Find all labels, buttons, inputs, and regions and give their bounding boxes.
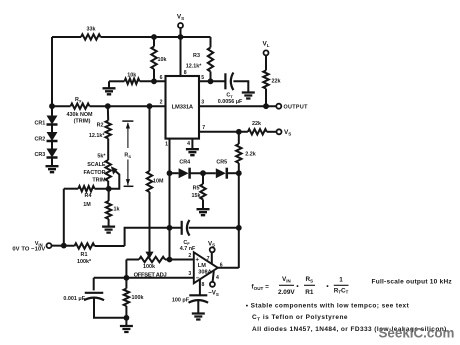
terminal VIN	[47, 243, 52, 248]
label CR2	[35, 137, 46, 143]
wire to opamp plus	[170, 259, 194, 261]
label 33k	[87, 27, 96, 33]
svg-text:Full-scale output 10 kHz: Full-scale output 10 kHz	[372, 278, 453, 285]
label CF	[180, 240, 196, 252]
svg-text:VL​: VL​	[262, 41, 269, 48]
svg-text:0V TO −10V: 0V TO −10V	[12, 247, 45, 253]
svg-text:R3: R3	[193, 53, 200, 59]
pin 6 label	[160, 75, 163, 81]
label 22k VL	[272, 79, 281, 85]
svg-text:10M: 10M	[153, 179, 164, 185]
ground R5	[197, 209, 210, 215]
opamp pin3 label	[188, 271, 191, 277]
formula fout	[252, 284, 270, 292]
opamp pin7	[210, 247, 215, 263]
capacitor CF 4.7nF	[182, 220, 190, 236]
svg-text:22k: 22k	[272, 79, 281, 85]
svg-text:1k: 1k	[114, 207, 120, 213]
svg-text:LM331A: LM331A	[172, 104, 194, 110]
wire opamp output up	[238, 228, 240, 268]
svg-text:10k: 10k	[158, 57, 167, 63]
label VS top	[177, 14, 184, 21]
junction R4 pot 1k	[106, 186, 112, 192]
svg-text:100k: 100k	[143, 264, 155, 270]
op-amp U2 LM308A	[194, 252, 218, 283]
resistor R3 12.1k	[208, 37, 213, 81]
svg-text:6: 6	[160, 75, 163, 81]
opamp pin8	[199, 280, 201, 296]
svg-text:FACTOR: FACTOR	[83, 170, 105, 176]
label R5	[192, 185, 201, 199]
label 0.001uF	[63, 296, 85, 302]
label OUTPUT	[284, 105, 309, 111]
wire pin3 row	[94, 277, 194, 279]
svg-text:1: 1	[165, 142, 168, 148]
svg-text:6: 6	[220, 262, 223, 268]
svg-text:5k*: 5k*	[97, 153, 106, 159]
note diodes	[252, 326, 447, 333]
junction opamp plus	[167, 257, 173, 263]
terminal VS right	[277, 129, 282, 134]
resistor R5 15k	[200, 173, 205, 209]
svg-text:12.1k*: 12.1k*	[186, 64, 202, 70]
diode CR3	[47, 141, 58, 158]
opamp minus sign	[196, 275, 200, 282]
svg-text:CR3: CR3	[35, 152, 46, 158]
label CT	[218, 93, 243, 106]
label 100k vertical	[132, 295, 144, 301]
label R4	[83, 193, 91, 208]
wire pin 1 vertical	[169, 139, 171, 260]
label LM308A	[198, 263, 212, 275]
svg-text:RS​: RS​	[124, 153, 131, 159]
resistor 10k vertical	[151, 37, 156, 81]
svg-text:• Stable components with low t: • Stable components with low tempco; see…	[246, 303, 410, 310]
junction R3 pin5	[208, 78, 214, 84]
IC U1 LM331A	[166, 76, 200, 139]
svg-text:OUTPUT: OUTPUT	[284, 105, 309, 111]
wire 2.2k to summing node	[238, 173, 240, 228]
label RS	[124, 153, 131, 159]
wire CR5 to 2.2k	[227, 172, 239, 174]
junction VIN R4	[61, 243, 67, 249]
formula frac RS	[304, 276, 315, 296]
wire CR4 anode	[170, 172, 179, 174]
wiper scale factor	[109, 166, 120, 189]
svg-text:TRIM: TRIM	[92, 177, 106, 183]
resistor R2 12.1k	[106, 106, 111, 160]
svg-text:R4: R4	[85, 193, 92, 199]
junction RX left	[49, 103, 55, 109]
wire offset pot left down	[125, 260, 127, 278]
label 10M	[153, 179, 164, 185]
diode CR1	[47, 106, 58, 124]
ground 1k	[102, 227, 115, 233]
ground 100pF	[192, 314, 205, 320]
svg-text:2: 2	[188, 253, 191, 259]
svg-text:R5: R5	[193, 185, 200, 191]
opamp pin6 label	[220, 262, 223, 268]
svg-text:5: 5	[201, 75, 204, 81]
pin 5 label	[201, 75, 204, 81]
label 22k VS	[252, 121, 261, 127]
label minus VS opamp	[208, 290, 219, 297]
label 430k NOM	[66, 112, 93, 125]
svg-text:100 pF: 100 pF	[172, 298, 190, 304]
junction R5	[200, 170, 206, 176]
svg-text:(TRIM): (TRIM)	[74, 119, 91, 125]
opamp pin8 label	[202, 282, 205, 288]
terminal VL	[264, 50, 269, 70]
junction top bus VS	[178, 34, 184, 40]
diode CR5	[216, 168, 227, 179]
label R2	[89, 123, 105, 140]
wire top supply bus	[52, 36, 211, 38]
potentiometer 100k offset	[126, 257, 169, 262]
label CR3	[35, 152, 46, 158]
formula dot2	[326, 283, 329, 290]
capacitor CT 0.0056uF	[225, 73, 233, 91]
svg-text:R1: R1	[81, 252, 88, 258]
capacitor 100pF	[189, 295, 209, 302]
ground for 10k	[103, 81, 116, 94]
label 2.2k	[245, 152, 256, 158]
svg-text:CR2: CR2	[35, 137, 46, 143]
formula frac VIN	[278, 276, 295, 296]
svg-text:SCALE: SCALE	[87, 162, 106, 168]
resistor RX 430k	[52, 104, 166, 109]
label VS right	[284, 129, 291, 136]
svg-text:1: 1	[339, 277, 343, 284]
junction ground row	[124, 315, 130, 321]
note teflon	[252, 314, 348, 321]
label OFFSET ADJ	[134, 273, 167, 279]
junction pin1 CR4	[167, 170, 173, 176]
resistor 10k horizontal	[109, 79, 166, 84]
pin 4 label	[187, 141, 190, 147]
note stable	[246, 303, 410, 310]
label VIN	[35, 241, 43, 247]
wire pin 3 output row	[199, 105, 276, 107]
resistor R4 1M	[64, 186, 109, 191]
svg-text:8: 8	[184, 70, 187, 76]
diode CR2	[47, 125, 58, 142]
svg-text:10k: 10k	[127, 72, 136, 78]
formula dot1	[296, 283, 299, 290]
junction CR5 2.2k	[236, 170, 242, 176]
svg-text:100k*: 100k*	[77, 259, 92, 265]
label RX	[75, 97, 82, 103]
svg-text:CT​: CT​	[226, 93, 233, 99]
svg-text:8: 8	[202, 282, 205, 288]
opamp pin2 label	[188, 253, 191, 259]
label 5k scale factor	[83, 153, 106, 183]
svg-text:SeekIC.com: SeekIC.com	[379, 326, 455, 341]
svg-text:0.0056 μF: 0.0056 μF	[218, 99, 243, 105]
resistor 1k	[106, 189, 111, 226]
wire pin 7 row	[199, 131, 248, 133]
svg-text:33k: 33k	[87, 27, 96, 33]
wire R4 to VIN	[63, 189, 65, 246]
svg-text:430k NOM: 430k NOM	[66, 112, 93, 118]
junction summing pin1	[167, 225, 173, 231]
svg-text:0.001 μF: 0.001 μF	[63, 296, 85, 302]
svg-text:CR5: CR5	[216, 159, 227, 165]
resistor 22k VS	[248, 129, 277, 134]
svg-text:+: +	[195, 257, 199, 264]
label CR5	[216, 159, 227, 165]
junction top bus 10k	[151, 34, 157, 40]
terminal OUTPUT	[276, 104, 281, 109]
svg-text:308A: 308A	[198, 269, 211, 275]
label 10k vertical	[158, 57, 167, 63]
bracket RS	[122, 121, 133, 186]
opamp pin7 label	[207, 256, 210, 262]
svg-text:2: 2	[160, 100, 163, 106]
pin 3 label	[201, 100, 204, 106]
svg-text:CT​ is Teflon or Polystyrene: CT​ is Teflon or Polystyrene	[252, 314, 348, 321]
junction RX 10M	[147, 103, 153, 109]
resistor R1 100k	[75, 243, 125, 248]
junction pin7 2.2k	[236, 129, 242, 135]
junction summing right	[236, 225, 242, 231]
ground 100k	[120, 318, 133, 332]
svg-text:3: 3	[201, 100, 204, 106]
svg-text:2.2k: 2.2k	[245, 152, 256, 158]
watermark SeekIC	[379, 326, 455, 341]
wire R1 to summing row	[125, 228, 181, 246]
wire left vertical from top bus	[51, 37, 53, 106]
pin 1 label	[165, 142, 168, 148]
wire CF to summing right	[189, 227, 239, 229]
note full-scale	[372, 278, 453, 285]
wire pin 8 from VS	[180, 37, 182, 76]
svg-text:CR4: CR4	[179, 159, 190, 165]
label R1	[77, 252, 92, 265]
junction VL output	[263, 103, 269, 109]
ground for CT	[242, 93, 255, 99]
svg-text:4: 4	[216, 275, 219, 281]
label 0V to -10V	[12, 247, 45, 253]
svg-text:CR1: CR1	[35, 121, 46, 127]
wiper arrow offset pot	[145, 252, 153, 259]
svg-text:4: 4	[187, 141, 190, 147]
opamp pin4 label	[216, 275, 219, 281]
svg-text:1M: 1M	[83, 202, 91, 208]
wire CT to ground	[233, 81, 248, 92]
svg-text:7: 7	[207, 256, 210, 262]
pin 8 label	[184, 70, 187, 76]
junction RX R2	[105, 103, 111, 109]
wire cap 0.001 to ground row	[94, 298, 126, 318]
wire CR4 CR5	[190, 172, 216, 174]
resistor 33k	[81, 34, 101, 39]
label VL	[262, 41, 269, 48]
wire VIN junction	[52, 245, 75, 247]
label LM331A	[172, 104, 194, 110]
ground pin 4	[186, 139, 199, 156]
svg-text:12.1k*: 12.1k*	[89, 133, 105, 139]
formula frac RTCT	[334, 277, 349, 295]
wire pin 5 row	[199, 80, 225, 82]
svg-text:22k: 22k	[252, 121, 261, 127]
label 1k	[114, 207, 120, 213]
pin 7 label	[202, 125, 205, 131]
svg-text:3: 3	[188, 271, 191, 277]
ground CR string	[46, 158, 59, 173]
opamp pin6 wire	[218, 267, 239, 269]
junction pin3 node	[124, 275, 130, 281]
svg-text:R1: R1	[305, 289, 314, 296]
resistor 100k vertical	[124, 278, 129, 318]
pin 2 label	[160, 100, 163, 106]
wire 100pF to ground	[197, 301, 199, 314]
svg-text:R2: R2	[97, 123, 104, 129]
label VS opamp	[208, 240, 215, 247]
opamp plus sign	[195, 257, 199, 264]
svg-text:100k: 100k	[132, 295, 144, 301]
resistor 22k VL	[263, 70, 268, 106]
label CR1	[35, 121, 46, 127]
label 100pF	[172, 298, 190, 304]
svg-text:LM: LM	[198, 263, 206, 269]
label R3	[186, 53, 202, 70]
diode CR4	[179, 168, 190, 179]
wire cap 0.001 down	[93, 278, 95, 291]
svg-text:7: 7	[202, 125, 205, 131]
resistor 10M	[147, 106, 152, 253]
svg-text:2.09V: 2.09V	[278, 289, 295, 296]
label 10k horizontal	[127, 72, 136, 78]
resistor 2.2k	[236, 132, 241, 173]
label CR4	[179, 159, 190, 165]
label 100k offset	[143, 264, 155, 270]
junction 10k pin6	[151, 78, 157, 84]
opamp pin4	[210, 271, 215, 287]
svg-text:RX​: RX​	[75, 97, 82, 103]
svg-text:15k: 15k	[192, 193, 201, 199]
capacitor 0.001uF	[84, 293, 104, 300]
terminal VS top	[178, 23, 183, 37]
potentiometer 5k scale factor	[106, 160, 111, 189]
